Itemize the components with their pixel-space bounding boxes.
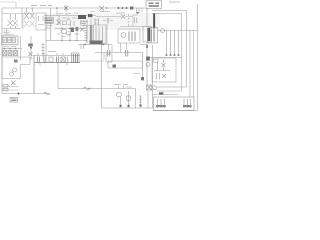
capacitor C915 [137,8,140,14]
capacitor C930 [146,63,150,67]
diode D930 [162,60,166,71]
wire B+ [146,8,148,27]
resistor R932 [154,59,159,62]
wire [152,10,187,12]
wire [15,2,17,8]
label block [88,14,92,17]
standby box [2,57,30,79]
wire [103,53,105,61]
fuse resistor row box [2,36,19,45]
node [106,7,107,8]
node [137,12,139,14]
node [89,88,90,89]
relay RY901 [36,13,46,30]
pin ticks [38,53,63,56]
wire [141,8,143,12]
wire right inner 1 [189,31,191,98]
capacitor C914 [126,7,128,9]
resistor R923 [3,88,8,91]
resistor R912 [107,18,110,25]
bottom right box [154,97,195,111]
wire [120,26,143,28]
transformer T902 secondary [94,25,107,44]
diode D918 [29,52,33,56]
wire bottom bus [58,88,102,90]
wire secondary bus [78,44,112,46]
diode D915 [3,51,7,56]
resistor R950 [127,91,130,107]
node [76,40,77,41]
label T901 text [31,5,52,7]
wire [2,28,20,30]
diode D908 [80,28,84,32]
wire drop [120,43,122,53]
resistor R922 [3,85,8,88]
wire barrier [106,24,108,45]
degauss connector pins [151,30,154,42]
resistor R904 [12,38,16,43]
scan tint transformer [84,24,107,45]
capacitor C912 [118,7,120,9]
wire B+ vertical [152,45,154,108]
diode D906 [57,16,61,25]
CRT board box top [146,57,183,59]
wire right bus [158,30,198,32]
wire [55,28,85,30]
node [30,47,32,49]
wire [56,8,58,16]
relay RY901 contacts [38,16,44,25]
resistor R916 [49,57,53,62]
bridge rectifier D903 lower [24,21,35,28]
ground stamp [10,98,18,103]
capacitor C905 [71,21,75,27]
node [15,48,16,49]
wire primary rail [44,15,96,17]
scan tint left column [1,36,19,57]
resistor R915 [38,57,40,63]
wire right inner 2 [193,31,195,98]
wire [57,63,59,89]
thermistor TH901 [161,29,165,33]
IC row rail top [34,55,80,57]
photocoupler PC901 [121,33,126,38]
CRT board box [152,58,176,82]
diode D909 [100,6,105,11]
label text [100,12,125,14]
capacitor C919 [135,18,137,24]
wire [22,14,24,29]
small box [106,54,112,62]
wire top faint [0,1,16,3]
wire [50,23,52,40]
test pin [119,86,124,89]
resistor R925 [113,65,116,68]
pin ticks below [40,63,67,66]
fuse F903 [44,92,50,94]
wire [61,34,63,41]
zener chain D911 [128,15,130,27]
wire standby vertical [33,55,35,94]
label text cluster [80,22,89,26]
wire main top bus [2,7,145,9]
deflection box top [108,61,143,68]
diode D917 [14,51,18,56]
transistor Q902 [129,32,135,42]
pin arrow 2 [169,53,171,56]
photocoupler box PC901 [118,29,140,43]
wire drop [108,45,110,51]
scan tint primary band [44,13,160,30]
transistor Q901 [62,29,67,34]
node [102,44,104,46]
transistor Q904 [67,32,71,36]
wire drop [111,45,113,53]
wire bottom border [154,110,198,112]
wire gnd bus [2,93,50,95]
wire feedback right [186,11,188,88]
diode D912 [61,57,65,62]
wire [154,70,170,72]
capacitor C920 [108,50,110,57]
resistor R930 [146,57,150,61]
label text row 2 [57,12,99,24]
node [4,48,5,49]
label text top right [169,1,180,3]
resistor R942 [183,105,192,107]
capacitor C941 [158,99,165,108]
resistor R909 [76,27,79,31]
transformer T902 top pins [91,19,99,26]
wire primary bus [46,40,85,42]
solder pads [120,104,142,107]
wire [142,53,144,80]
node blob [146,45,148,48]
pin arrow 1 [165,53,167,56]
resistor R903 [63,21,67,25]
hybrid IC903 [72,53,80,63]
bottom mid box bottom [102,107,153,109]
capacitor C901 [4,29,10,36]
resistor R902 [8,38,12,43]
wire left border [1,8,3,94]
connector CN901 box [146,1,162,9]
node [61,28,62,29]
resistor R908 [71,28,74,33]
wire right border [197,4,199,111]
regulator IC902 [143,27,151,43]
resistor R921 [14,60,18,63]
diode D902 [13,14,19,29]
capacitor C918 [67,57,69,63]
wire [50,8,52,17]
label text [48,51,56,53]
transistor Q906 [10,72,14,76]
capacitor C942 [184,99,191,108]
wire [20,36,22,60]
label text [132,14,138,16]
node [61,40,62,41]
wire feedback right 2 [181,14,183,92]
resistor R901 [3,38,7,43]
wire [65,10,67,16]
capacitor C922 [141,77,144,80]
diode D901 [8,14,14,29]
transformer T902 primary coil [85,26,87,43]
wire [120,97,122,107]
wire drop 4 [178,31,180,54]
label text [3,34,14,36]
wire heater line [157,86,187,88]
resistor R951 [139,95,142,106]
resistor R940 [159,92,163,94]
diode D931 [163,74,167,78]
fuse F902 [84,87,90,90]
wire drop [126,43,128,50]
node [9,48,10,49]
wire [96,16,121,18]
wire [152,13,182,15]
transistor Q903 [117,92,122,97]
wire [45,16,47,64]
wire [140,44,147,46]
capacitor C913 [122,7,124,9]
wire [2,48,22,50]
secondary rail [95,52,143,54]
node junction [56,7,58,9]
IC901 label block [78,15,86,19]
choke L903 [28,44,33,47]
label text [3,46,16,48]
wire [152,94,178,96]
wire [125,17,133,27]
wire [80,60,104,62]
transistor Q905 [13,68,17,72]
transformer T902 core [90,25,92,44]
diode D920 [11,81,16,86]
wire [76,31,78,41]
wire drop 3 [174,31,176,54]
label text [103,20,113,22]
capacitor C921 [126,50,128,57]
capacitor C917 [57,57,59,63]
pin arrow 4 [177,53,179,56]
shield bar [153,13,155,29]
diode D940 [147,85,152,90]
capacitor C931 [157,73,160,80]
connector CN901 pins [149,3,160,6]
bottom mid box top [102,88,136,90]
node [84,44,86,46]
capacitor C940 [153,86,157,90]
diode D916 [8,51,12,56]
wire [21,8,23,29]
degauss connector box [148,28,158,44]
line filter F901 [45,17,53,23]
pin arrow 3 [173,53,175,56]
label text [46,26,79,37]
wire [147,91,149,108]
transformer T902 pins [90,41,103,45]
wire [2,87,18,91]
node [69,40,70,41]
wire [30,36,32,60]
wire drop 1 [166,31,168,54]
wire [2,13,34,15]
diode D905 [64,5,68,11]
resistor chain R910 [42,43,45,58]
bottom mid box inner [135,89,137,109]
resistor R905 [81,20,87,27]
bridge rectifier D903 [24,8,35,19]
wire heater line 2 [157,90,182,92]
wire [69,32,71,41]
capacitor C910 [81,45,84,50]
diode D910 [121,15,125,19]
resistor stripes [4,39,15,41]
label text row [56,18,77,25]
label text [114,84,128,86]
wire B+ lower [146,42,148,85]
choke L902 [130,7,133,10]
label text [126,74,140,88]
resistor R941 [156,105,166,107]
IC row rail bottom [34,62,80,64]
bottom mid box left [101,89,103,109]
node [69,28,70,29]
node [18,93,20,95]
capacitor C916 [44,57,46,63]
wire secondary vertical [101,45,103,89]
resistor R931 [157,62,159,71]
wire drop 2 [170,31,172,54]
